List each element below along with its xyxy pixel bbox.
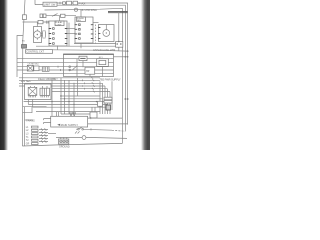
wire A-B row1 [67,28,75,30]
junction dot b2 [64,98,65,99]
wire TH1 down [89,74,91,76]
dot y56.8 b [127,56,129,58]
wire K1 down [102,66,104,76]
wire drop x122.4 [121,118,123,143]
terminal bar T1 [32,136,39,138]
switch S2 [72,65,78,70]
relay K3 contacts row [40,14,43,18]
relay RX2 [34,66,39,71]
svg-text:OL HTR 40VA: OL HTR 40VA [81,8,98,12]
wire bus y80.3 [19,79,100,81]
contactor box B [75,17,93,43]
svg-text:FAN: FAN [77,19,81,22]
box dot [118,41,119,42]
pump motor B1 [74,8,77,11]
wire y137.3 [56,137,127,138]
TR2 bars [42,88,46,95]
plug P1 row4 [39,137,48,139]
box right of M2 [116,42,123,48]
junction dot b5 [51,101,52,102]
contactor box A [49,21,67,46]
wire bus y98.8 [60,98,103,100]
wire y106.7 stub [23,106,47,108]
fuse F2 [73,1,78,5]
junction dot b1 [60,95,61,96]
wire bottom slanted [22,143,122,146]
relay K1 inner [99,60,106,64]
fuse F1 [67,1,72,5]
contactor B terminals right [91,25,94,39]
wire dark segment [108,11,128,12]
motor M2 hub [106,32,107,33]
scan edge right [141,0,150,150]
heater HR1 bars [44,67,47,72]
wire y114 [61,113,94,115]
wire stub top [35,0,43,5]
wire midbox down [82,61,84,68]
wire y131 dashed [112,129,125,132]
svg-text:LIMIT SW: LIMIT SW [44,3,56,7]
enclosure top edge dark [64,53,114,55]
plug P1 row3 [39,134,48,136]
wire bus y86 [19,85,105,87]
transformer TR1 [28,87,37,95]
junction dot b6 [96,101,97,102]
small label box mid [79,56,87,60]
wire bus y88.7 [52,88,108,90]
wire into box upper [44,119,51,121]
transformer TR1 X [28,87,37,95]
capacitor C2 [46,21,48,24]
svg-text:CONTROL CKT: CONTROL CKT [26,51,44,54]
fan motor box M2 [99,25,115,42]
chevrons right of TB3 [75,131,80,133]
control box CB1 [43,2,57,6]
relay RX1 [27,65,33,71]
wire bus y96 [60,95,100,97]
svg-text:GR: GR [26,143,30,145]
wire stub BX2b [94,107,96,112]
contact dot S2b [69,69,71,71]
wire stub BX2a [91,107,93,112]
legend label box [26,50,53,54]
TB3 ticks [61,138,67,139]
wire top row1 [57,3,128,125]
wire A-B row2 [67,33,75,35]
wire bus y107.2 [33,100,110,108]
wire under boxes [36,45,116,47]
terminal bar L3 [32,133,39,135]
tick T1 [59,2,61,4]
terminal squares A [53,28,55,45]
wire drop B bottom [80,44,82,49]
terminal bar L2 [32,129,39,131]
dot y56.8 a [125,56,127,58]
wire drop x64.5 [64,80,66,114]
wire left rail L3 [24,107,26,147]
switch S3 dots [78,128,80,130]
wire bus y77.8 [19,77,100,79]
wire right bundle x107.5 [107,89,109,114]
wire right bundle x112 [111,81,113,110]
dashed wire x95.5 [95,25,97,44]
switch S3 [76,127,82,129]
transformer TR2 [40,88,50,95]
capacitor C1 [42,30,45,39]
wire bus y101.6 [24,101,105,103]
relay contact K5 [38,20,43,23]
main supply box [51,116,88,127]
wire drop x69 [68,80,70,114]
TR stubs [31,86,48,88]
wire right bundle x102.5 [102,83,104,114]
motor M1 hub [37,34,38,35]
wire left rail L2 [17,36,23,78]
heater HR1 [42,67,49,72]
fan motor M2 [103,30,110,37]
enclosure control box [64,54,114,77]
plug P1 row1 [39,128,48,130]
wire right bundle x105 [104,86,106,114]
tick s3 line [90,128,92,130]
wire right bundle x100 [99,81,101,114]
svg-text:HP: HP [86,70,90,73]
svg-text:TRANS: TRANS [26,119,35,123]
wire bus y66.7 [17,66,114,68]
ticks box top [57,112,59,117]
wire drop x74 [73,83,75,114]
wire bus y83.3 [19,82,103,84]
fork dots [69,112,70,113]
wire y120 label row [25,119,34,121]
arrow supply [57,124,60,126]
tick pair bus [58,66,61,71]
relay RX1 X [27,65,33,71]
junction dot b3 [68,101,69,102]
svg-text:FU: FU [22,41,25,43]
wire into box lower [44,123,51,125]
wire drop x61 [60,78,62,114]
dot heater rail [127,50,129,52]
wire bus y58.7 [17,58,114,60]
wire switch row [46,15,76,17]
small box text [80,57,85,59]
wire TB3 link [48,132,56,134]
wire left rail L1 [22,0,25,146]
stub M1 top [36,22,38,27]
junction dot right rail [125,98,127,100]
wire right bundle x110 [109,92,111,115]
TB3 pins [60,140,62,142]
wire A-B [68,23,70,47]
wire bus y62.7 [17,62,114,64]
plug P1 row2 [39,131,48,133]
tiny box row1 [63,2,66,5]
relay K4 contacts [43,14,46,18]
motor M1 ticks [37,29,42,39]
svg-text:TB2 PWR SUPPLY: TB2 PWR SUPPLY [100,77,121,81]
scan edge left [0,0,8,150]
svg-text:GROUND: GROUND [59,146,70,149]
wire M2 top lead [105,25,107,30]
terminal block TB3 [59,139,69,144]
junction dot b4 [73,104,74,105]
wire bus y91.5 [52,91,110,93]
wire bus y73.3 [23,72,114,74]
contactor B label box [77,17,86,21]
wire box exit lower [88,123,128,125]
wire y112.7 stub [23,107,33,113]
dark box DB1 [106,105,111,110]
stub A top [59,16,61,21]
wire row3 [57,5,125,131]
M2 terminals [98,28,100,39]
wire y129.2 [83,128,112,131]
motor box M1 [34,27,42,43]
terminal squares B [79,24,81,39]
junction dot right rail2 [127,98,129,100]
plug P1 row5 [39,140,48,142]
box terminals [117,43,122,45]
fuse FU1 on rail [22,15,26,20]
wire box down [118,47,120,51]
bell B2 [82,136,86,140]
wire bus y104.4 [28,100,107,105]
wire row y22 [23,21,50,23]
fork component Y1 [70,113,75,116]
transformer enclosure [25,84,52,100]
component small SC1 [98,101,103,106]
stub B top [80,10,82,17]
contactor A label box [55,21,64,26]
thermostat TH1 [85,67,95,74]
contactor A terminals right [65,29,68,44]
terminal bar L1 [32,126,39,128]
wire box exit upper [88,117,123,119]
wire B right [93,22,99,24]
wire y56.8 [114,56,128,58]
wire drop x118 [118,13,120,42]
wire enclosure inner vertical [76,59,78,77]
svg-text:COMP: COMP [55,24,62,26]
junction box J1 [22,45,27,49]
switch S1 [52,14,58,17]
terminal bar T2 [32,139,39,141]
svg-text:MAIN SUPPLY: MAIN SUPPLY [61,123,79,127]
wire drop A bottom [57,46,59,50]
terminal bar GR [32,143,39,145]
contactor A terminals left [49,29,52,44]
svg-text:CRANKCASE HTR: CRANKCASE HTR [93,48,115,52]
hook ticks line ends [92,77,95,93]
contact dots S2 [69,66,71,68]
TR1 hatching [29,95,35,97]
box bottom BX2 [90,112,97,118]
relay contacts RC2 [104,100,112,103]
wire row2 [45,8,123,118]
relay contacts RC1 [104,97,112,100]
wire drop x52 [51,78,53,118]
relay coil K1 [97,59,109,67]
wire drop x77.5 [77,78,79,96]
mid ticks bus [83,80,85,90]
motor M1 [34,31,41,38]
overload OL1 [61,14,66,17]
wire heater row [53,50,128,51]
wire bus y70 [17,69,114,71]
contactor B terminals left [75,25,78,39]
wire bus y110.4 [36,111,100,113]
wire bottom of motors [74,43,116,45]
TR2 hatching [41,95,48,97]
